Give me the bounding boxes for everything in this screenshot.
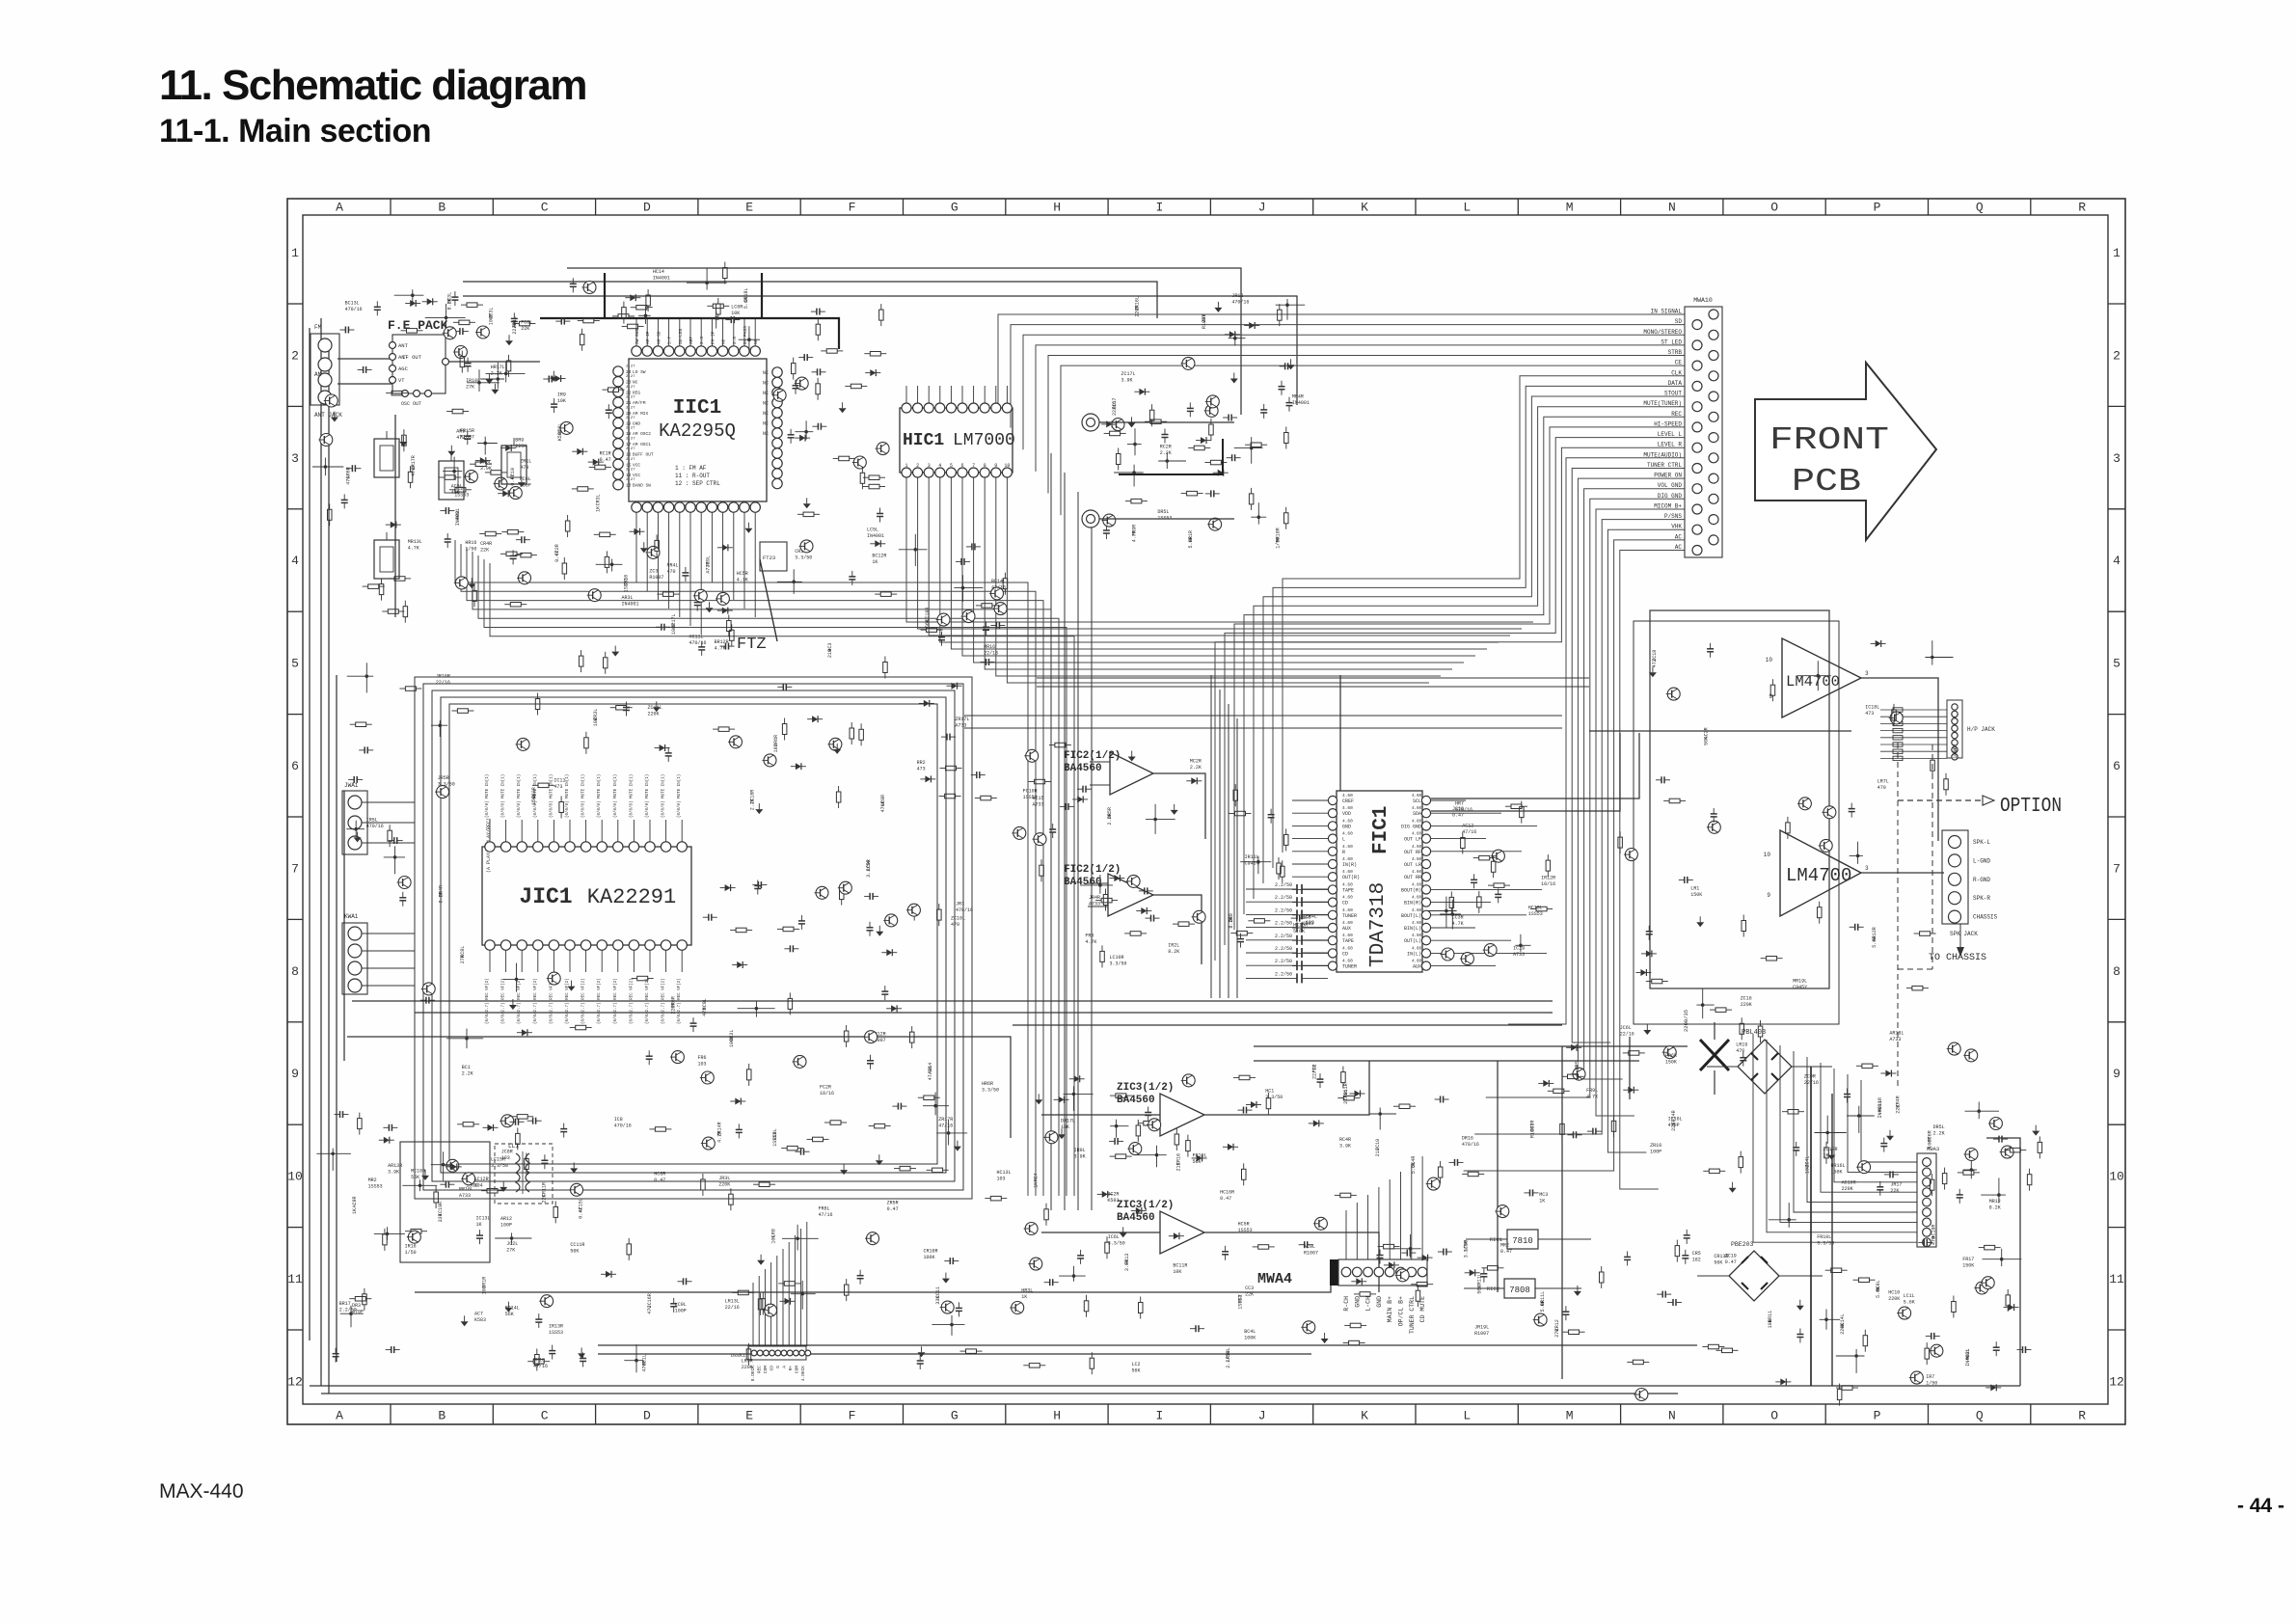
- svg-text:C: C: [541, 201, 549, 215]
- svg-text:IC6L: IC6L: [1108, 1234, 1120, 1240]
- wire bundle from MWA10 mid pins to audio section: [1215, 376, 1685, 961]
- svg-text:SPK JACK: SPK JACK: [1950, 931, 1978, 937]
- op IC IIC1 KA2295Q body: [629, 359, 767, 501]
- wire column H vertical bundle: [1051, 453, 1092, 1210]
- svg-text:R: R: [2078, 201, 2086, 215]
- svg-text:(0/0/2.7) REC NF(2): (0/0/2.7) REC NF(2): [613, 978, 618, 1024]
- svg-text:15: 15: [626, 462, 632, 468]
- svg-text:473: 473: [1652, 659, 1658, 667]
- label TO CHASSIS with arrow: [1929, 924, 1986, 963]
- svg-text:HR16L: HR16L: [1831, 1163, 1846, 1169]
- svg-text:(0/0/2.7) REC NF(2): (0/0/2.7) REC NF(2): [517, 978, 522, 1024]
- svg-text:8: 8: [984, 463, 986, 469]
- wire antenna feed: [338, 358, 392, 360]
- svg-text:5.6K: 5.6K: [1540, 1300, 1546, 1312]
- svg-text:KWA1: KWA1: [344, 913, 359, 920]
- svg-text:470/16: 470/16: [1231, 300, 1249, 306]
- svg-text:2.27: 2.27: [626, 458, 635, 462]
- wire left vertical bus 3: [336, 675, 338, 1362]
- svg-text:ZIC3(1/2): ZIC3(1/2): [1117, 1200, 1174, 1211]
- wire fic2 outputs: [1153, 773, 1205, 839]
- svg-text:VCC: VCC: [633, 462, 640, 468]
- svg-text:AC9R: AC9R: [352, 1196, 358, 1207]
- component cluster: left of JIC1: [346, 663, 473, 1003]
- svg-text:NC: NC: [763, 431, 769, 437]
- svg-text:(0/0/0) MUTE IN(1): (0/0/0) MUTE IN(1): [581, 774, 586, 818]
- svg-text:TUNER CTRL: TUNER CTRL: [1647, 462, 1682, 469]
- wire bottom bus 4: [598, 1353, 1311, 1355]
- svg-text:100P: 100P: [1650, 1149, 1661, 1154]
- svg-text:HC5R: HC5R: [1238, 1222, 1250, 1228]
- svg-text:HR3L: HR3L: [1021, 1288, 1033, 1294]
- svg-text:FIC1: FIC1: [1370, 806, 1392, 854]
- svg-text:SDA: SDA: [1413, 811, 1421, 817]
- svg-text:2.2K: 2.2K: [1190, 765, 1202, 771]
- svg-text:IC8: IC8: [614, 1117, 623, 1123]
- svg-text:BUFF OUT: BUFF OUT: [633, 452, 654, 458]
- svg-text:ZC14L: ZC14L: [648, 705, 662, 711]
- svg-text:TAPE: TAPE: [1342, 887, 1354, 893]
- svg-text:103: 103: [482, 1286, 488, 1294]
- svg-text:OUT(L): OUT(L): [1404, 938, 1421, 944]
- svg-text:IR9: IR9: [557, 392, 566, 398]
- wire bold feed above IIC1: [540, 318, 839, 349]
- svg-text:R: R: [2078, 1409, 2086, 1423]
- svg-text:OUT RR: OUT RR: [1404, 875, 1421, 880]
- svg-text:RC1R: RC1R: [600, 450, 611, 456]
- svg-text:2.27: 2.27: [626, 427, 635, 431]
- svg-text:N: N: [1668, 1409, 1676, 1423]
- svg-text:4.60: 4.60: [1412, 807, 1422, 811]
- svg-text:FR10L: FR10L: [1193, 1152, 1207, 1158]
- svg-text:2.2/50: 2.2/50: [1275, 907, 1292, 913]
- svg-text:(0/0/2.7) REC NF(2): (0/0/2.7) REC NF(2): [597, 978, 602, 1024]
- wire amp section boundary loop: [1650, 610, 1829, 988]
- svg-text:8: 8: [2113, 964, 2120, 979]
- wire bold drop left: [604, 273, 606, 318]
- svg-text:CE: CE: [1675, 360, 1683, 366]
- component cluster: left of FIC1: [1229, 784, 1317, 947]
- bridge rectifier lower: [1697, 1241, 1823, 1301]
- svg-text:0.47: 0.47: [654, 1177, 665, 1183]
- svg-text:2.2K: 2.2K: [491, 371, 502, 377]
- wire power mid horizontals: [1254, 1045, 1688, 1047]
- svg-text:G: G: [775, 1366, 781, 1368]
- svg-text:MR16: MR16: [984, 644, 995, 650]
- svg-text:11-1. Main section: 11-1. Main section: [159, 113, 431, 149]
- svg-text:JC8R: JC8R: [501, 1150, 513, 1155]
- svg-text:100K: 100K: [924, 1255, 935, 1260]
- svg-text:2.27: 2.27: [626, 396, 635, 400]
- component cluster: below IIC1: [554, 523, 752, 674]
- svg-text:AR12: AR12: [500, 1216, 512, 1222]
- svg-text:10K: 10K: [731, 311, 740, 316]
- component cluster: HR resistor grid right of HIC1: [1112, 293, 1310, 549]
- svg-text:22: 22: [626, 390, 632, 395]
- IFT can T3: [439, 461, 464, 500]
- svg-text:27K: 27K: [506, 1247, 515, 1253]
- op-amp FIC2(1/2) BA4560 lower: [1064, 864, 1153, 916]
- svg-text:ZR1L: ZR1L: [520, 459, 531, 465]
- svg-text:470P: 470P: [411, 465, 417, 476]
- svg-text:LR7L: LR7L: [1877, 778, 1889, 784]
- svg-text:AM OSC1: AM OSC1: [633, 442, 651, 447]
- component cluster: below HIC1 transistor group: [827, 534, 1007, 679]
- svg-text:HIC1: HIC1: [903, 431, 944, 450]
- svg-text:473: 473: [1865, 711, 1874, 717]
- svg-text:10K: 10K: [770, 1235, 776, 1244]
- svg-text:33K: 33K: [935, 1296, 941, 1305]
- svg-text:RC4R: RC4R: [1339, 1137, 1351, 1143]
- svg-text:SU-LED: SU-LED: [678, 328, 684, 344]
- svg-text:1SS53: 1SS53: [1237, 1295, 1243, 1310]
- svg-text:4.60: 4.60: [1342, 831, 1353, 837]
- svg-text:BC13L: BC13L: [345, 301, 360, 307]
- svg-text:2.2/50: 2.2/50: [1226, 1351, 1231, 1368]
- IC HIC1 LM7000 body: [900, 408, 1015, 473]
- svg-text:SW GND: SW GND: [635, 328, 640, 344]
- svg-text:(0/0/2.7) REC NF(2): (0/0/2.7) REC NF(2): [485, 978, 490, 1024]
- svg-text:IN4001: IN4001: [653, 276, 670, 282]
- svg-text:470: 470: [1931, 1236, 1936, 1245]
- svg-text:AM/FM: AM/FM: [633, 400, 646, 406]
- wire mid bus 4: [347, 1037, 1011, 1138]
- svg-text:1K: 1K: [1034, 1182, 1040, 1188]
- wire amp output L: [1861, 678, 1938, 714]
- svg-text:2.2/50: 2.2/50: [1275, 971, 1292, 977]
- svg-text:220K: 220K: [1842, 1186, 1853, 1192]
- wire amp output R: [1861, 872, 1944, 874]
- component cluster: line amp details: [374, 1151, 584, 1243]
- svg-text:Q: Q: [1976, 1409, 1984, 1423]
- svg-text:VHK: VHK: [1671, 524, 1682, 530]
- svg-text:10: 10: [2109, 1170, 2124, 1184]
- svg-text:3.9K: 3.9K: [1121, 377, 1133, 383]
- svg-text:A: A: [336, 1409, 343, 1423]
- svg-text:6: 6: [291, 759, 299, 773]
- svg-text:MUTE(TUNER): MUTE(TUNER): [1643, 400, 1682, 407]
- wire top net 2: [463, 282, 1157, 318]
- wire right edge vertical: [1986, 1138, 2020, 1386]
- svg-text:MWA10: MWA10: [1693, 297, 1713, 304]
- wire bottom bus 2: [321, 1393, 1678, 1394]
- wire FIC1 SCL: [1431, 733, 1639, 798]
- svg-text:ZC3: ZC3: [649, 568, 658, 574]
- svg-text:IN4001: IN4001: [622, 601, 639, 607]
- wire mid bus 1: [352, 1000, 1553, 1002]
- wire long rail to amp 1: [964, 715, 1562, 717]
- svg-text:22/16: 22/16: [984, 650, 998, 656]
- svg-text:4.60: 4.60: [1412, 820, 1422, 824]
- svg-text:3: 3: [928, 463, 931, 469]
- svg-text:DIG GND: DIG GND: [1401, 824, 1421, 829]
- svg-text:4.7K: 4.7K: [1452, 921, 1464, 927]
- svg-text:1/50: 1/50: [1276, 537, 1282, 549]
- svg-text:C945Y: C945Y: [1793, 985, 1807, 990]
- svg-text:O: O: [1770, 201, 1778, 215]
- svg-text:5.6K: 5.6K: [1872, 936, 1877, 948]
- svg-text:COM: COM: [763, 1366, 769, 1373]
- svg-text:R1007: R1007: [1304, 1250, 1318, 1256]
- label OPTION with dashed leader: [1898, 743, 2062, 1090]
- svg-text:(0/0/0) MUTE IN(1): (0/0/0) MUTE IN(1): [501, 774, 506, 818]
- svg-text:(0/0/0) MUTE IN(1): (0/0/0) MUTE IN(1): [662, 774, 666, 818]
- wire deck bus up: [753, 1222, 807, 1346]
- svg-text:AC9L: AC9L: [1304, 1244, 1315, 1250]
- connector KWA1: [342, 913, 415, 994]
- svg-text:NC: NC: [763, 370, 769, 376]
- svg-text:ZC10L: ZC10L: [951, 916, 965, 922]
- svg-text:103: 103: [1804, 1165, 1810, 1174]
- svg-text:NC: NC: [763, 401, 769, 407]
- svg-text:A733: A733: [1513, 952, 1525, 958]
- svg-text:DR17L: DR17L: [1061, 1118, 1075, 1123]
- svg-text:2.2K: 2.2K: [1160, 450, 1172, 456]
- svg-text:4.60: 4.60: [1412, 858, 1422, 862]
- svg-text:17: 17: [626, 442, 632, 447]
- svg-text:FR9L: FR9L: [1586, 1088, 1598, 1094]
- svg-text:220K: 220K: [1840, 1323, 1846, 1335]
- transformer LL1: [495, 1143, 553, 1204]
- svg-text:2: 2: [916, 463, 919, 469]
- svg-text:56K: 56K: [1193, 1159, 1202, 1165]
- IIC1 bottom pins 1-12: [632, 502, 761, 635]
- svg-text:150K: 150K: [531, 794, 537, 805]
- svg-text:4.60: 4.60: [1342, 907, 1353, 913]
- svg-text:150K: 150K: [1962, 1262, 1974, 1268]
- svg-text:R+: R+: [788, 1366, 794, 1371]
- svg-text:4.60: 4.60: [1412, 846, 1422, 850]
- svg-text:J: J: [1258, 201, 1266, 215]
- svg-text:MR4R: MR4R: [1292, 394, 1304, 400]
- svg-text:47/16: 47/16: [991, 585, 1006, 591]
- svg-text:4.60: 4.60: [1342, 818, 1353, 824]
- svg-text:FR10L: FR10L: [1817, 1234, 1831, 1240]
- power amp LM4700 L: [1766, 638, 1869, 717]
- svg-text:BAND SW: BAND SW: [633, 483, 651, 489]
- svg-text:3.3/50: 3.3/50: [866, 860, 872, 878]
- svg-text:(0/0/0) MUTE IN(1): (0/0/0) MUTE IN(1): [629, 774, 634, 818]
- power amp LM4700 R: [1764, 830, 1869, 916]
- wire antenna feed 2: [338, 383, 392, 385]
- svg-text:BC12R: BC12R: [872, 553, 886, 558]
- svg-text:CLK: CLK: [1671, 369, 1682, 376]
- wire amp inner rail 2: [1629, 1037, 1631, 1099]
- svg-text:56K: 56K: [505, 1312, 514, 1317]
- svg-text:DIG GND: DIG GND: [1658, 493, 1683, 500]
- connector SPK JACK: [1942, 830, 1998, 937]
- svg-text:10K: 10K: [593, 717, 599, 726]
- svg-text:(0/0/0) MUTE IN(1): (0/0/0) MUTE IN(1): [565, 774, 570, 818]
- capacitor bank bold X mark: [1683, 1010, 1729, 1095]
- svg-text:CR5: CR5: [1692, 1251, 1701, 1257]
- svg-text:21: 21: [626, 400, 632, 406]
- svg-text:100K: 100K: [1953, 747, 1958, 759]
- svg-text:MR2: MR2: [1500, 1242, 1509, 1248]
- svg-text:2: 2: [291, 348, 299, 363]
- svg-text:470/16: 470/16: [689, 640, 707, 646]
- svg-text:4.7K: 4.7K: [715, 645, 726, 651]
- svg-text:104: 104: [474, 1182, 483, 1188]
- svg-text:22/16: 22/16: [1620, 1032, 1634, 1038]
- svg-text:AC7: AC7: [474, 1311, 483, 1316]
- svg-text:1/50: 1/50: [1926, 1380, 1937, 1386]
- svg-text:2.27: 2.27: [626, 437, 635, 441]
- component cluster: right of F.E PACK: [443, 292, 527, 500]
- svg-text:22K: 22K: [1245, 1292, 1254, 1298]
- svg-text:MAIN B+: MAIN B+: [1387, 1296, 1393, 1322]
- wire long top bus JM035: [463, 296, 1297, 405]
- svg-text:4.7K: 4.7K: [408, 546, 419, 552]
- svg-text:R-GND: R-GND: [1973, 877, 1990, 883]
- wire HIC1 pin drop bundle: [906, 474, 1533, 683]
- wire jack L feed: [1099, 421, 1234, 423]
- svg-text:NC: NC: [763, 421, 769, 427]
- svg-text:DR16: DR16: [1462, 1136, 1473, 1142]
- svg-text:5: 5: [2113, 657, 2120, 671]
- svg-text:22K: 22K: [1890, 1188, 1899, 1194]
- svg-text:LEVEL R: LEVEL R: [1658, 442, 1683, 448]
- svg-text:4: 4: [291, 554, 299, 568]
- svg-text:SPK-L: SPK-L: [1973, 839, 1990, 846]
- svg-text:FC2R: FC2R: [820, 1085, 831, 1091]
- wire left vertical bus 5: [309, 328, 311, 1340]
- svg-text:AM SD: AM SD: [656, 331, 662, 344]
- svg-text:ART: ART: [689, 337, 694, 344]
- svg-text:1SS53: 1SS53: [1528, 911, 1543, 917]
- svg-text:LM7000: LM7000: [953, 431, 1015, 450]
- svg-text:MR19L: MR19L: [1793, 979, 1807, 985]
- wire jack R feed: [1099, 518, 1234, 520]
- IFT can T1: [374, 439, 399, 477]
- svg-text:1SS53: 1SS53: [1238, 1228, 1253, 1233]
- svg-text:12 : SEP CTRL: 12 : SEP CTRL: [675, 480, 720, 487]
- svg-text:8.2K: 8.2K: [438, 891, 444, 903]
- svg-text:5.6K: 5.6K: [1904, 1300, 1915, 1306]
- svg-text:POWER ON: POWER ON: [1654, 473, 1682, 479]
- svg-text:MAX-440: MAX-440: [159, 1480, 244, 1502]
- svg-text:10: 10: [1764, 852, 1771, 858]
- svg-text:IC11: IC11: [554, 778, 565, 784]
- svg-text:6: 6: [2113, 759, 2120, 773]
- svg-text:4.7K: 4.7K: [1131, 530, 1137, 542]
- svg-text:I: I: [1155, 1409, 1163, 1423]
- svg-text:IC18L: IC18L: [1865, 705, 1879, 711]
- svg-text:3.9K: 3.9K: [1124, 1259, 1130, 1271]
- svg-text:473: 473: [520, 465, 528, 471]
- svg-text:BA4560: BA4560: [1064, 877, 1102, 888]
- svg-text:JC2L: JC2L: [506, 1241, 518, 1247]
- svg-text:FC8L: FC8L: [521, 320, 532, 326]
- svg-text:AR13R: AR13R: [388, 1163, 402, 1169]
- svg-text:AM IF: AM IF: [645, 331, 651, 344]
- svg-text:DR3: DR3: [352, 1303, 361, 1309]
- svg-text:FM: FM: [314, 324, 322, 331]
- svg-text:ANT JACK: ANT JACK: [314, 412, 342, 419]
- svg-text:TDA7318: TDA7318: [1367, 882, 1390, 967]
- svg-text:IN4001: IN4001: [867, 533, 884, 539]
- svg-text:TUNER CTRL: TUNER CTRL: [1409, 1296, 1416, 1334]
- svg-text:220K: 220K: [671, 1003, 677, 1015]
- svg-text:IF OUT: IF OUT: [402, 354, 422, 361]
- svg-text:11. Schematic diagram: 11. Schematic diagram: [159, 62, 586, 109]
- svg-text:220K: 220K: [742, 1365, 753, 1370]
- svg-text:3.3/50: 3.3/50: [1464, 1240, 1470, 1258]
- component cluster: FIC2 surroundings: [1012, 743, 1205, 967]
- wire amp input rail R: [1037, 686, 1589, 688]
- svg-text:IN4001: IN4001: [455, 508, 461, 526]
- svg-text:(0/0/0) MUTE IN(1): (0/0/0) MUTE IN(1): [517, 774, 522, 818]
- svg-text:VDD: VDD: [1342, 811, 1351, 817]
- svg-text:MUTE(AUDIO): MUTE(AUDIO): [1643, 451, 1682, 458]
- svg-text:ZC16: ZC16: [1741, 996, 1752, 1002]
- svg-text:MC10R: MC10R: [411, 1169, 425, 1175]
- svg-text:27K: 27K: [1554, 1329, 1560, 1338]
- svg-text:K: K: [1361, 1409, 1368, 1423]
- svg-text:Q: Q: [1976, 201, 1984, 215]
- svg-text:19: 19: [626, 421, 632, 427]
- svg-text:1SS53: 1SS53: [623, 578, 629, 592]
- svg-text:3.9K: 3.9K: [388, 1169, 399, 1175]
- svg-text:150K: 150K: [1831, 1170, 1843, 1176]
- component cluster: right of FIC1: [1428, 801, 1555, 965]
- svg-text:BR9: BR9: [515, 438, 524, 444]
- wire zic3 out 2: [1204, 1232, 1379, 1292]
- component cluster: below JIC1: [434, 961, 1007, 1210]
- svg-text:2.27: 2.27: [626, 365, 635, 369]
- svg-text:3.3/50: 3.3/50: [1110, 961, 1127, 967]
- svg-text:JR19L: JR19L: [1474, 1324, 1489, 1330]
- IIC1 right pins 37-48: [763, 367, 782, 489]
- svg-text:TUNER: TUNER: [1342, 964, 1357, 970]
- svg-text:8.2K: 8.2K: [1989, 1205, 2001, 1211]
- svg-text:RC8: RC8: [1302, 915, 1310, 921]
- svg-text:8.2K: 8.2K: [1229, 917, 1234, 929]
- svg-text:CREF: CREF: [1342, 798, 1354, 804]
- wire fan into MWA3: [1753, 1034, 1917, 1242]
- svg-text:10K: 10K: [1768, 1319, 1773, 1328]
- svg-text:IR7: IR7: [1926, 1374, 1934, 1380]
- svg-text:VOL GND: VOL GND: [1658, 482, 1683, 489]
- svg-text:2: 2: [2113, 348, 2120, 363]
- wire F.E PACK to IIC1: [446, 361, 540, 363]
- svg-text:2.2/50: 2.2/50: [1275, 895, 1292, 901]
- svg-text:23: 23: [626, 380, 632, 386]
- svg-text:LC2: LC2: [1132, 1362, 1141, 1367]
- svg-text:3: 3: [1865, 670, 1869, 677]
- svg-text:4.60: 4.60: [1412, 871, 1422, 875]
- svg-text:56K: 56K: [925, 619, 931, 628]
- svg-text:CD: CD: [1342, 951, 1348, 957]
- svg-text:2.27: 2.27: [626, 469, 635, 473]
- svg-text:ZC19: ZC19: [1725, 1254, 1737, 1259]
- svg-text:M: M: [1566, 201, 1574, 215]
- svg-text:LC12R: LC12R: [474, 1177, 489, 1182]
- svg-text:JIC1: JIC1: [519, 884, 572, 909]
- svg-text:4.60: 4.60: [1342, 869, 1353, 875]
- svg-text:5: 5: [950, 463, 953, 469]
- svg-text:4.7K: 4.7K: [737, 577, 748, 582]
- svg-text:JR3L: JR3L: [718, 1176, 730, 1181]
- svg-text:470/16: 470/16: [614, 1123, 632, 1129]
- svg-text:100P: 100P: [671, 623, 677, 635]
- svg-text:220K: 220K: [515, 444, 527, 449]
- svg-text:4.60: 4.60: [1342, 805, 1353, 811]
- svg-text:3.3/50: 3.3/50: [1265, 1095, 1283, 1100]
- svg-text:I: I: [1155, 201, 1163, 215]
- svg-text:1K: 1K: [352, 1208, 358, 1214]
- svg-text:4.60: 4.60: [1412, 961, 1422, 964]
